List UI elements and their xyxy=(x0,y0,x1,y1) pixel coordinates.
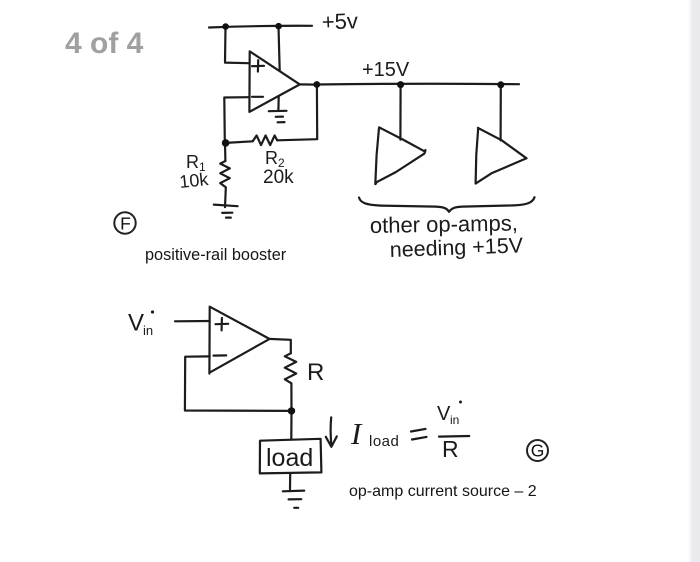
svg-text:R: R xyxy=(442,436,459,462)
svg-text:+15V: +15V xyxy=(362,59,410,81)
svg-text:+5v: +5v xyxy=(321,8,358,34)
svg-text:in: in xyxy=(450,413,459,427)
svg-text:load: load xyxy=(369,433,399,450)
svg-text:V: V xyxy=(437,403,451,425)
svg-text:20k: 20k xyxy=(263,167,294,188)
svg-text:V: V xyxy=(128,310,144,337)
svg-text:R: R xyxy=(307,359,324,386)
svg-text:in: in xyxy=(143,323,153,338)
svg-text:G: G xyxy=(531,441,545,461)
svg-text:needing +15V: needing +15V xyxy=(389,233,524,262)
svg-text:F: F xyxy=(120,213,131,233)
svg-text:10k: 10k xyxy=(178,169,210,192)
svg-text:R: R xyxy=(265,148,278,168)
svg-text:load: load xyxy=(266,444,313,472)
svg-text:I: I xyxy=(350,416,363,451)
svg-text:R: R xyxy=(186,152,199,172)
